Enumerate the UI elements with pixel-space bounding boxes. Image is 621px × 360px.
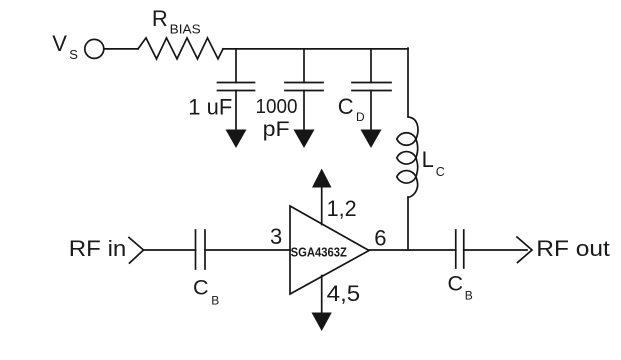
svg-text:SGA4363Z: SGA4363Z (291, 245, 347, 260)
svg-text:C: C (448, 272, 464, 296)
port RF in chevron (129, 238, 144, 264)
svg-text:C: C (193, 275, 209, 299)
arrow pin 4,5 down (ground) (312, 313, 332, 332)
svg-text:RF out: RF out (536, 236, 610, 261)
resistor R_BIAS (138, 38, 223, 59)
wire C_B out to RF out (464, 249, 527, 251)
svg-text:C: C (338, 94, 354, 119)
wire C_B to pin 3 (205, 249, 290, 251)
svg-text:C: C (436, 165, 445, 179)
capacitor 1uF top lead (235, 49, 237, 83)
svg-text:BIAS: BIAS (170, 22, 201, 36)
svg-text:B: B (211, 293, 219, 307)
capacitor 1000pF top lead (303, 49, 305, 83)
capacitor C_B input plates (195, 230, 197, 269)
svg-text:1,2: 1,2 (327, 196, 357, 221)
wire RF in chevron to C_B (144, 249, 196, 251)
svg-text:4,5: 4,5 (327, 281, 361, 306)
wire inductor to output node (407, 197, 409, 250)
svg-text:RF in: RF in (69, 236, 127, 261)
capacitor 1000pF bottom lead (303, 91, 305, 132)
ground arrow under 1uF (226, 130, 247, 149)
svg-text:S: S (69, 47, 78, 62)
svg-text:1 uF: 1 uF (188, 94, 232, 119)
wire pin 4,5 (321, 276, 323, 314)
wire pin 1,2 (321, 187, 323, 225)
capacitor C_B output plates (455, 230, 457, 268)
capacitor C_D plates (352, 82, 391, 84)
ground arrow under C_D (361, 130, 382, 149)
capacitor C_D top lead (370, 49, 372, 83)
svg-text:1000: 1000 (256, 96, 298, 118)
capacitor 1uF plates (218, 82, 255, 84)
ground arrow under 1000pF (294, 130, 315, 149)
port RF out chevron (517, 237, 532, 263)
svg-text:R: R (152, 6, 168, 31)
wire Vs to R_BIAS (104, 48, 138, 50)
svg-text:B: B (465, 288, 473, 302)
arrow pin 1,2 up (312, 169, 332, 188)
capacitor C_D bottom lead (370, 91, 372, 132)
op-amp U1 SGA4363Z triangle (290, 206, 369, 294)
svg-text:pF: pF (263, 118, 290, 141)
svg-text:6: 6 (374, 225, 386, 250)
wire bus corner down to inductor (407, 48, 409, 116)
inductor loop 2 (397, 152, 416, 164)
inductor L_C coil (408, 117, 418, 197)
inductor loop 3 (397, 171, 416, 183)
wire pin 6 to C_B out (369, 249, 456, 251)
inductor loop 1 (397, 133, 416, 145)
node Vs terminal (85, 39, 104, 58)
wire top bus (223, 48, 408, 50)
capacitor 1uF bottom lead (235, 91, 237, 132)
svg-text:L: L (422, 147, 434, 172)
svg-text:V: V (52, 31, 67, 56)
svg-text:D: D (356, 110, 365, 124)
capacitor 1000pF plates (285, 82, 323, 84)
svg-text:3: 3 (270, 224, 282, 249)
